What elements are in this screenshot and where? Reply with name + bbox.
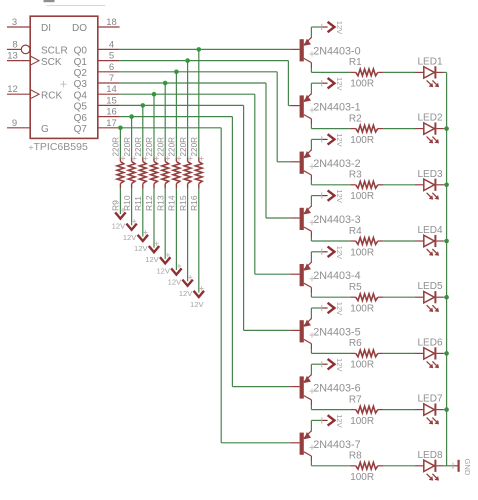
wire net Q4 to base of Q-4	[255, 273, 290, 275]
LED4 triangle	[424, 235, 435, 246]
wire emitter to 12V (ch 2)	[310, 139, 312, 150]
LED6 cathode pin	[436, 352, 443, 354]
IC U1 TPIC6B595 box	[30, 16, 98, 138]
svg-text:5: 5	[109, 51, 114, 62]
wire net Q5 horizontal	[120, 104, 244, 106]
svg-text:SCLR: SCLR	[41, 46, 68, 57]
transistor Q-7 2N4403-7 base bar	[300, 433, 304, 455]
12V supply arrow for R16	[194, 291, 204, 297]
LED2 anode pin	[415, 128, 424, 130]
12V supply arrow (ch 6)	[328, 359, 335, 369]
wire LED3 cathode to bus	[443, 184, 447, 186]
pin 9 G stub	[7, 127, 30, 129]
LED2 cathode pin	[436, 128, 443, 130]
transistor Q-3 base pin	[290, 217, 299, 219]
svg-text:R8: R8	[349, 451, 362, 462]
wire net Q2 horizontal	[120, 71, 278, 73]
12V supply arrow for R14	[171, 268, 181, 274]
12V supply arrow for R13	[160, 257, 170, 263]
svg-text:Q5: Q5	[74, 102, 88, 113]
transistor Q-7 origin cross	[309, 445, 314, 450]
LED3 cathode pin	[436, 184, 443, 186]
12V supply arrow (ch 1)	[328, 78, 335, 88]
resistor R10 (220R) vertical	[131, 157, 133, 161]
svg-text:12: 12	[7, 84, 18, 95]
wire Q0 drop to resistor R16	[198, 49, 200, 157]
12V supply arrow (ch 4)	[328, 247, 335, 257]
junction dot LED6 on bus	[444, 351, 449, 356]
transistor Q-3 collector	[304, 227, 312, 231]
12V supply arrow (ch 3)	[328, 190, 335, 200]
pin 8 inversion bubble	[21, 45, 30, 54]
svg-text:220R: 220R	[145, 137, 154, 157]
wire Q4 drop to resistor R12	[153, 94, 155, 157]
svg-text:220R: 220R	[190, 137, 199, 157]
wire emitter to 12V (ch 6)	[310, 364, 312, 375]
svg-text:R7: R7	[349, 394, 362, 405]
svg-text:LED5: LED5	[418, 281, 443, 292]
svg-text:Q6: Q6	[74, 113, 88, 124]
junction dot on Q0 net	[197, 47, 202, 52]
transistor Q-7 collector pin	[310, 456, 312, 462]
LED7 cathode bar	[434, 404, 436, 416]
svg-text:12V: 12V	[112, 222, 126, 231]
LED5 light arrows	[427, 305, 431, 309]
transistor Q-7 emitter	[304, 431, 312, 439]
resistor R16 origin cross	[199, 156, 203, 160]
12V supply arrow (ch 5)	[328, 303, 335, 313]
svg-text:Q7: Q7	[74, 124, 88, 135]
LED8 light arrows	[427, 474, 431, 478]
12V supply pin (ch 0)	[322, 26, 327, 28]
12V supply pin (ch 4)	[322, 251, 327, 253]
wire Q6 drop to resistor R10	[131, 117, 133, 158]
wire Q1 drop to resistor R15	[187, 61, 189, 158]
svg-text:R1: R1	[349, 57, 362, 68]
svg-text:100R: 100R	[350, 247, 374, 258]
cut-off label remnant at top edge	[44, 0, 55, 2]
transistor Q-2 collector	[304, 171, 312, 175]
cut-off wire remnant at top	[46, 5, 105, 7]
transistor Q-2 collector pin	[310, 175, 312, 181]
wire LED1 cathode to bus	[443, 71, 447, 73]
12V supply origin tick (ch 2)	[321, 136, 323, 142]
transistor Q-7 base pin	[290, 442, 299, 444]
resistor R15 (220R) vertical	[187, 157, 189, 161]
wire emitter to 12V (ch 1)	[310, 83, 312, 94]
svg-text:2N4403-3: 2N4403-3	[313, 214, 360, 226]
transistor Q-0 emitter arrow (PNP)	[304, 39, 311, 46]
resistor R12 origin cross	[154, 156, 158, 160]
transistor Q-0 origin cross	[309, 51, 314, 56]
LED7 triangle	[424, 404, 435, 415]
transistor Q-2 2N4403-2 base bar	[300, 152, 304, 174]
wire net Q5 vertical drop	[243, 105, 245, 330]
wire net Q7 horizontal	[120, 127, 222, 129]
svg-text:7: 7	[109, 73, 114, 84]
wire LED2 cathode to bus	[443, 128, 447, 130]
wire R8 to LED8	[383, 465, 415, 467]
transistor Q-7 emitter arrow (PNP)	[304, 432, 311, 439]
transistor Q-4 collector pin	[310, 287, 312, 293]
transistor Q-5 emitter arrow (PNP)	[304, 320, 311, 327]
svg-text:220R: 220R	[134, 137, 143, 157]
resistor R14 origin cross	[177, 156, 181, 160]
wire LED4 cathode to bus	[443, 240, 447, 242]
LED1 triangle	[424, 67, 435, 78]
12V supply pin (ch 1)	[322, 82, 327, 84]
LED2 triangle	[424, 123, 435, 134]
resistor R11 (220R) vertical	[142, 157, 144, 161]
svg-text:2N4403-2: 2N4403-2	[313, 158, 360, 170]
LED1 cathode pin	[436, 71, 443, 73]
svg-text:12V: 12V	[145, 255, 159, 264]
LED7 light arrows	[427, 418, 431, 422]
wire emitter to 12V (ch 0)	[310, 27, 312, 38]
12V supply pin (ch 5)	[322, 307, 327, 309]
wire R11 to 12V supply	[142, 189, 144, 237]
svg-text:6: 6	[109, 62, 114, 73]
12V supply origin cross	[188, 275, 192, 279]
12V supply arrow for R12	[149, 246, 159, 252]
transistor Q-5 collector	[304, 339, 312, 343]
wire emitter to 12V (ch 7)	[310, 420, 312, 431]
wire net Q3 vertical drop	[265, 83, 267, 218]
junction dot on Q4 net	[152, 92, 157, 97]
svg-text:220R: 220R	[123, 137, 132, 157]
svg-text:R16: R16	[189, 195, 199, 211]
svg-text:18: 18	[106, 17, 117, 28]
LED3 anode pin	[415, 184, 424, 186]
wire R13 to 12V supply	[164, 189, 166, 259]
wire collector to R1	[310, 68, 312, 72]
resistor R3 (100R)	[350, 184, 356, 186]
pin 12 clock mark	[30, 90, 39, 99]
LED4 anode pin	[415, 240, 424, 242]
transistor Q-4 2N4403-4 base bar	[300, 264, 304, 286]
transistor Q-4 base pin	[290, 273, 299, 275]
12V supply arrow (ch 2)	[328, 134, 335, 144]
LED5 triangle	[424, 292, 435, 303]
transistor Q-2 emitter arrow (PNP)	[304, 151, 311, 158]
svg-text:9: 9	[12, 118, 17, 129]
transistor Q-6 collector pin	[310, 400, 312, 406]
transistor Q-4 emitter arrow (PNP)	[304, 263, 311, 270]
LED7 cathode pin	[436, 409, 443, 411]
transistor Q-1 origin cross	[309, 108, 314, 113]
12V supply arrow for R10	[126, 224, 136, 230]
resistor R8 (100R)	[350, 465, 356, 467]
junction dot on Q1 net	[185, 58, 190, 63]
LED1 anode pin	[415, 71, 424, 73]
transistor Q-5 2N4403-5 base bar	[300, 320, 304, 342]
svg-text:12V: 12V	[335, 414, 344, 428]
12V supply arrow for R15	[182, 280, 192, 286]
wire Q2 drop to resistor R14	[175, 72, 177, 158]
wire Q3 drop to resistor R13	[164, 83, 166, 157]
resistor R9 (220R) vertical	[119, 157, 121, 161]
resistor R13 origin cross	[166, 156, 170, 160]
svg-text:12V: 12V	[335, 358, 344, 372]
wire net Q0 to base of Q-0	[120, 48, 291, 50]
12V supply arrow for R9	[115, 212, 125, 218]
wire collector to R8	[310, 462, 312, 466]
wire R10 to 12V supply	[131, 189, 133, 226]
wire R16 to 12V supply	[198, 189, 200, 293]
svg-text:12V: 12V	[123, 233, 137, 242]
svg-text:LED8: LED8	[418, 450, 443, 461]
junction dot on Q7 net	[118, 126, 123, 131]
svg-text:LED6: LED6	[418, 337, 443, 348]
transistor Q-4 emitter	[304, 262, 312, 270]
svg-text:100R: 100R	[350, 79, 374, 90]
transistor Q-3 2N4403-3 base bar	[300, 208, 304, 230]
resistor R13 (220R) vertical	[164, 157, 166, 161]
wire net Q7 vertical drop	[220, 128, 222, 443]
junction dot LED2 on bus	[444, 126, 449, 131]
svg-text:12V: 12V	[335, 133, 344, 147]
svg-text:R3: R3	[349, 170, 362, 181]
wire net Q1 vertical drop	[287, 61, 289, 106]
LED4 light arrows	[427, 249, 431, 253]
12V supply pin (ch 3)	[322, 195, 327, 197]
wire collector to R4	[310, 237, 312, 241]
transistor Q-1 emitter arrow (PNP)	[304, 95, 311, 102]
12V supply origin tick (ch 3)	[321, 192, 323, 198]
LED4 cathode bar	[434, 235, 436, 247]
svg-text:2N4403-7: 2N4403-7	[313, 439, 360, 451]
LED1 cathode bar	[434, 66, 436, 78]
LED5 cathode bar	[434, 291, 436, 303]
svg-text:Q3: Q3	[74, 79, 88, 90]
pin 5 Q1 stub	[98, 60, 120, 62]
wire net Q1 horizontal	[120, 60, 289, 62]
transistor Q-0 collector pin	[310, 63, 312, 69]
pin 16 Q6 stub	[98, 116, 120, 118]
svg-text:100R: 100R	[350, 472, 374, 483]
12V supply arrow (ch 0)	[328, 22, 335, 32]
svg-text:2N4403-0: 2N4403-0	[313, 45, 360, 57]
svg-text:2N4403-1: 2N4403-1	[313, 102, 360, 114]
GND origin tick	[452, 463, 454, 469]
svg-text:12V: 12V	[335, 246, 344, 260]
svg-text:2N4403-5: 2N4403-5	[313, 326, 360, 338]
LED8 triangle	[424, 460, 435, 471]
12V supply origin cross	[121, 208, 125, 212]
transistor Q-5 origin cross	[309, 332, 314, 337]
wire collector to R6	[310, 349, 312, 353]
svg-text:Q1: Q1	[74, 57, 88, 68]
12V supply pin (ch 6)	[322, 363, 327, 365]
wire emitter to 12V (ch 3)	[310, 196, 312, 207]
svg-text:12V: 12V	[134, 244, 148, 253]
svg-text:R11: R11	[133, 196, 143, 211]
LED3 light arrows	[427, 193, 431, 197]
svg-text:8: 8	[12, 39, 17, 50]
transistor Q-0 emitter	[304, 37, 312, 45]
wire net Q6 vertical drop	[231, 117, 233, 387]
wire net Q7 to base of Q-7	[221, 442, 290, 444]
LED1 light arrows	[427, 80, 431, 84]
cathode bus wire	[446, 72, 448, 465]
pin 13 clock mark	[30, 56, 39, 65]
wire R14 to 12V supply	[175, 189, 177, 271]
transistor Q-1 emitter	[304, 94, 312, 102]
transistor Q-6 2N4403-6 base bar	[300, 376, 304, 398]
junction dot LED4 on bus	[444, 239, 449, 244]
wire R7 to LED7	[383, 409, 415, 411]
pin 7 Q3 stub	[98, 82, 120, 84]
transistor Q-4 origin cross	[309, 276, 314, 281]
junction dot on Q3 net	[163, 81, 168, 86]
resistor R10 origin cross	[132, 156, 136, 160]
transistor Q-0 collector	[304, 58, 312, 62]
junction dot LED7 on bus	[444, 407, 449, 412]
svg-text:3: 3	[12, 17, 17, 28]
svg-text:12V: 12V	[179, 289, 193, 298]
LED6 cathode bar	[434, 347, 436, 359]
resistor R4 (100R)	[350, 240, 356, 242]
LED8 cathode pin	[436, 465, 443, 467]
IC origin cross	[60, 81, 66, 87]
svg-text:13: 13	[7, 51, 18, 62]
wire emitter to 12V (ch 5)	[310, 308, 312, 319]
resistor R9 origin cross	[121, 156, 125, 160]
pin 3 DI stub	[7, 26, 30, 28]
resistor R2 (100R)	[350, 128, 356, 130]
svg-text:14: 14	[106, 84, 117, 95]
LED2 light arrows	[427, 137, 431, 141]
svg-text:12V: 12V	[335, 21, 344, 35]
wire net Q3 to base of Q-3	[266, 217, 290, 219]
transistor Q-2 origin cross	[309, 164, 314, 169]
junction dot on Q2 net	[174, 70, 179, 75]
svg-text:15: 15	[106, 95, 117, 106]
junction dot on Q6 net	[129, 114, 134, 119]
transistor Q-6 emitter	[304, 375, 312, 383]
pin 17 Q7 stub	[98, 127, 120, 129]
svg-text:100R: 100R	[350, 135, 374, 146]
transistor Q-1 collector	[304, 115, 312, 119]
wire net Q5 to base of Q-5	[244, 329, 291, 331]
svg-text:2N4403-4: 2N4403-4	[313, 270, 360, 282]
wire R15 to 12V supply	[187, 189, 189, 282]
wire R9 to 12V supply	[119, 189, 121, 215]
wire R5 to LED5	[383, 296, 415, 298]
svg-text:Q0: Q0	[74, 46, 88, 57]
pin 6 Q2 stub	[98, 71, 120, 73]
svg-text:LED4: LED4	[418, 225, 443, 236]
resistor R15 origin cross	[188, 156, 192, 160]
12V supply origin tick (ch 0)	[321, 24, 323, 30]
svg-text:LED3: LED3	[418, 169, 443, 180]
transistor Q-0 base pin	[290, 48, 299, 50]
GND supply pin	[452, 465, 458, 467]
transistor Q-1 base pin	[290, 105, 299, 107]
svg-text:R9: R9	[111, 200, 121, 211]
transistor Q-1 2N4403-1 base bar	[300, 95, 304, 117]
12V supply pin (ch 2)	[322, 138, 327, 140]
12V supply origin tick (ch 1)	[321, 80, 323, 86]
wire R3 to LED3	[383, 184, 415, 186]
wire Q7 drop to resistor R9	[119, 128, 121, 158]
svg-text:RCK: RCK	[41, 90, 62, 101]
wire LED6 cathode to bus	[443, 352, 447, 354]
12V supply origin cross	[166, 253, 170, 257]
svg-text:DO: DO	[72, 23, 87, 34]
wire emitter to 12V (ch 4)	[310, 252, 312, 263]
LED3 triangle	[424, 179, 435, 190]
LED5 anode pin	[415, 296, 424, 298]
pin 15 Q5 stub	[98, 104, 120, 106]
svg-text:G: G	[41, 124, 49, 135]
LED7 anode pin	[415, 409, 424, 411]
wire net Q3 horizontal	[120, 82, 266, 84]
svg-text:R10: R10	[122, 195, 132, 211]
resistor R1 (100R)	[350, 71, 356, 73]
svg-text:R4: R4	[349, 226, 362, 237]
transistor Q-2 emitter	[304, 150, 312, 158]
12V supply origin cross	[132, 219, 136, 223]
junction dot LED3 on bus	[444, 183, 449, 188]
svg-text:220R: 220R	[112, 137, 121, 157]
12V supply pin (ch 7)	[322, 419, 327, 421]
12V supply origin tick (ch 6)	[321, 361, 323, 367]
12V supply arrow (ch 7)	[328, 415, 335, 425]
transistor Q-5 emitter	[304, 318, 312, 326]
wire collector to R3	[310, 181, 312, 185]
svg-text:220R: 220R	[156, 137, 165, 157]
svg-text:TPIC6B595: TPIC6B595	[34, 141, 88, 153]
transistor Q-6 collector	[304, 396, 312, 400]
svg-text:LED2: LED2	[418, 113, 443, 124]
svg-text:100R: 100R	[350, 304, 374, 315]
resistor R7 (100R)	[350, 409, 356, 411]
wire net Q6 horizontal	[120, 116, 233, 118]
resistor R5 (100R)	[350, 296, 356, 298]
wire R4 to LED4	[383, 240, 415, 242]
svg-text:GND: GND	[463, 459, 472, 476]
svg-text:4: 4	[109, 39, 114, 50]
wire net Q1 to base of Q-1	[288, 105, 290, 107]
wire Q5 drop to resistor R11	[142, 105, 144, 157]
12V supply origin cross	[177, 264, 181, 268]
LED6 triangle	[424, 348, 435, 359]
svg-text:12V: 12V	[190, 300, 204, 309]
svg-text:SCK: SCK	[41, 57, 62, 68]
svg-text:16: 16	[106, 107, 117, 118]
wire R2 to LED2	[383, 128, 415, 130]
LED8 cathode bar	[434, 460, 436, 472]
svg-text:Q2: Q2	[74, 68, 88, 79]
resistor R12 (220R) vertical	[153, 157, 155, 161]
svg-text:LED7: LED7	[418, 394, 443, 405]
LED4 cathode pin	[436, 240, 443, 242]
svg-text:12V: 12V	[335, 189, 344, 203]
12V supply origin cross	[199, 286, 203, 290]
12V supply arrow for R11	[138, 235, 148, 241]
svg-text:LED1: LED1	[418, 56, 443, 67]
transistor Q-5 base pin	[290, 329, 299, 331]
12V supply origin cross	[154, 242, 158, 246]
LED6 light arrows	[427, 361, 431, 365]
transistor Q-3 collector pin	[310, 231, 312, 237]
transistor Q-7 collector	[304, 452, 312, 456]
svg-text:12V: 12V	[335, 77, 344, 91]
transistor Q-5 collector pin	[310, 344, 312, 350]
svg-text:R13: R13	[155, 195, 165, 211]
resistor R14 (220R) vertical	[175, 157, 177, 161]
